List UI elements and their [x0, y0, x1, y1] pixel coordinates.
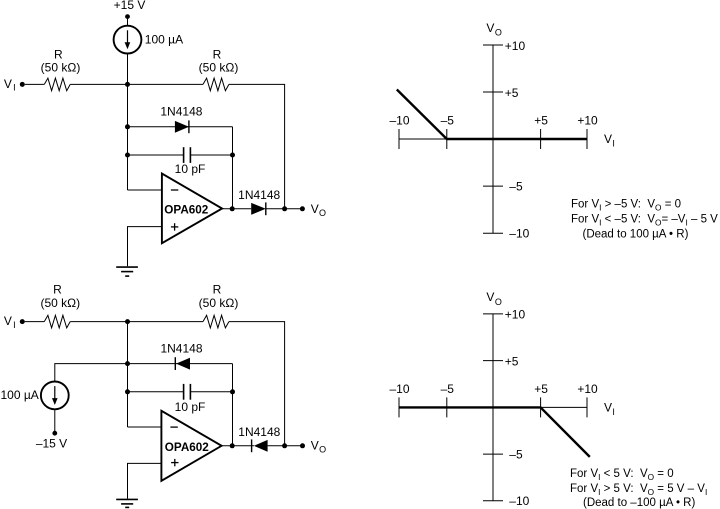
- bottom graph y tick +5: [483, 360, 503, 362]
- bottom graph x tick -5: [446, 397, 448, 417]
- node VI input terminal dot (bottom): [20, 319, 25, 324]
- wire VI terminal to R1 (bottom): [25, 321, 45, 323]
- svg-text:O: O: [495, 297, 502, 307]
- node VI input terminal dot (top): [20, 82, 25, 87]
- bottom graph y tick -5: [483, 453, 503, 455]
- svg-text:O: O: [319, 445, 326, 455]
- op-amp U2 plus sign: [171, 459, 178, 466]
- node feedback-resistor/output junction dot (top): [282, 206, 287, 211]
- wire R2 to right feedback corner (bottom): [229, 322, 285, 446]
- svg-text:V: V: [4, 314, 12, 328]
- top graph VO axis (vertical): [492, 45, 494, 233]
- label VI axis (bottom graph): [604, 401, 615, 418]
- svg-text:V: V: [604, 132, 612, 146]
- svg-text:+5: +5: [534, 382, 548, 396]
- svg-text:I: I: [612, 139, 615, 149]
- svg-text:+15 V: +15 V: [114, 0, 146, 12]
- node +15V terminal dot: [125, 14, 130, 19]
- diode D4 1N4148 output (bottom, pointing left): [252, 439, 268, 452]
- svg-text:I: I: [13, 83, 16, 93]
- bottom graph y tick -10: [483, 500, 503, 502]
- top graph x tick -5: [446, 129, 448, 149]
- svg-text:OPA602: OPA602: [165, 441, 209, 454]
- top graph y tick +5: [483, 91, 503, 93]
- resistor R1 (50 kOhm) zigzag (top): [44, 78, 70, 91]
- svg-text:O: O: [319, 208, 326, 218]
- svg-text:I: I: [13, 320, 16, 330]
- wire op-amp output to diode D4 (bottom): [222, 445, 254, 447]
- svg-text:For VI > –5 V: VO = 0: For VI > –5 V: VO = 0: [571, 198, 681, 212]
- wire R2 to right feedback corner: [229, 84, 285, 208]
- current source I1 arrow: [125, 30, 131, 49]
- capacitor C1 10 pF plates (top): [184, 147, 191, 163]
- svg-text:V: V: [604, 401, 612, 415]
- bottom graph VO axis (vertical): [492, 314, 494, 501]
- node VO terminal dot (bottom): [300, 443, 305, 448]
- svg-text:R: R: [213, 283, 222, 297]
- wire capacitor branch left segment (bottom): [128, 391, 184, 393]
- capacitor C2 10 pF plates (bottom): [184, 384, 191, 400]
- diode D1 1N4148 feedback (top, pointing right): [175, 120, 189, 133]
- wire current source up and right to node (bottom): [55, 364, 128, 382]
- diode D2 1N4148 output (top, pointing right): [251, 202, 266, 215]
- svg-text:(50 kΩ): (50 kΩ): [41, 60, 81, 74]
- svg-text:V: V: [4, 77, 12, 91]
- svg-text:10 pF: 10 pF: [175, 162, 206, 176]
- resistor R2 (50 kOhm) zigzag (bottom): [203, 315, 229, 328]
- svg-text:V: V: [311, 202, 319, 216]
- wire op-amp output to diode D2 (top): [222, 208, 251, 210]
- label VO axis (top graph): [486, 21, 502, 38]
- svg-text:+5: +5: [505, 354, 519, 368]
- svg-text:100 µA: 100 µA: [1, 388, 39, 402]
- wire current source to input node and down to inverting path: [127, 54, 129, 191]
- svg-text:(50 kΩ): (50 kΩ): [40, 296, 80, 310]
- node summing junction dot (bottom): [125, 319, 130, 324]
- svg-text:1N4148: 1N4148: [238, 425, 280, 439]
- wire diode D2 to VO terminal (top): [266, 208, 303, 210]
- wire non-inverting input to ground (bottom): [128, 463, 162, 498]
- wire inverting input (top): [128, 189, 162, 191]
- label VO axis (bottom graph): [486, 290, 502, 307]
- node op-amp output dot (top): [230, 206, 235, 211]
- bottom graph VI axis (horizontal): [399, 406, 587, 408]
- svg-text:R: R: [213, 47, 222, 61]
- wire summing node down inverting path (bottom): [127, 322, 129, 427]
- node capacitor right junction dot (top): [230, 153, 235, 158]
- svg-text:1N4148: 1N4148: [160, 342, 202, 356]
- wire R1 to R2 through summing node: [70, 83, 203, 85]
- node feedback diode junction dot (bottom): [125, 361, 130, 366]
- svg-text:For VI > 5 V: VO = 5 V – VI: For VI > 5 V: VO = 5 V – VI: [570, 483, 707, 497]
- label VI input (top): [4, 77, 16, 93]
- node op-amp output dot (bottom): [230, 443, 235, 448]
- svg-text:I: I: [612, 407, 615, 417]
- wire current source down to -15V terminal: [54, 410, 56, 434]
- wire non-inverting input to ground (top): [128, 227, 162, 267]
- node feedback-resistor/output junction dot (bottom): [282, 443, 287, 448]
- wire R1 to R2 through summing node (bottom): [70, 321, 203, 323]
- svg-text:+5: +5: [534, 114, 548, 128]
- node feedback diode junction dot (top): [125, 124, 130, 129]
- svg-text:10 pF: 10 pF: [175, 400, 206, 414]
- svg-text:–5: –5: [509, 447, 523, 461]
- svg-text:For VI < –5 V: VO= –VI – 5 V: For VI < –5 V: VO= –VI – 5 V: [571, 213, 718, 227]
- svg-text:–10: –10: [509, 226, 529, 240]
- svg-text:–5: –5: [509, 179, 523, 193]
- top graph y tick -5: [483, 185, 503, 187]
- top graph y tick +10: [483, 44, 503, 46]
- diode D3 1N4148 feedback (bottom, pointing left): [175, 357, 190, 370]
- label VO (top): [311, 202, 326, 218]
- svg-text:For VI < 5 V: VO = 0: For VI < 5 V: VO = 0: [570, 468, 674, 482]
- svg-text:–10: –10: [509, 494, 529, 508]
- svg-text:(50 kΩ): (50 kΩ): [199, 60, 239, 74]
- wire +15V terminal to current source: [127, 17, 129, 26]
- wire diode D4 to VO terminal (bottom): [268, 445, 303, 447]
- svg-text:(Dead to 100 µA • R): (Dead to 100 µA • R): [583, 228, 689, 240]
- svg-text:R: R: [54, 47, 63, 61]
- node capacitor left junction dot (top): [125, 153, 130, 158]
- svg-text:(50 kΩ): (50 kΩ): [199, 296, 239, 310]
- svg-text:–15 V: –15 V: [36, 436, 67, 450]
- wire VI terminal to R1: [25, 83, 45, 85]
- resistor R2 (50 kOhm) zigzag (top): [203, 78, 229, 91]
- wire feedback diode branch (top): [128, 126, 233, 128]
- svg-text:+5: +5: [505, 86, 519, 100]
- label VI axis (top graph): [604, 132, 615, 149]
- label VO (bottom): [311, 438, 326, 454]
- svg-text:R: R: [53, 283, 62, 297]
- svg-text:1N4148: 1N4148: [160, 105, 202, 119]
- svg-text:100 µA: 100 µA: [145, 32, 183, 46]
- svg-text:O: O: [495, 28, 502, 38]
- svg-text:OPA602: OPA602: [164, 203, 208, 216]
- wire capacitor branch right segment (top): [190, 154, 232, 156]
- svg-text:V: V: [311, 438, 319, 452]
- svg-text:+10: +10: [505, 39, 526, 53]
- op-amp U1 minus sign: [171, 189, 178, 191]
- node VO terminal dot (top): [300, 206, 305, 211]
- current source I2 circle (bottom): [41, 382, 69, 410]
- op-amp U2 minus sign: [170, 426, 177, 428]
- wire feedback diode branch (bottom): [128, 363, 233, 365]
- svg-text:–10: –10: [389, 114, 409, 128]
- top graph VI axis (horizontal): [399, 138, 587, 140]
- wire inverting input (bottom): [128, 426, 162, 428]
- wire feedback right vertical to output node (bottom): [232, 364, 234, 446]
- svg-text:–5: –5: [441, 382, 455, 396]
- node capacitor left junction dot (bottom): [125, 389, 130, 394]
- wire capacitor branch right segment (bottom): [190, 391, 232, 393]
- node summing junction dot (top): [125, 82, 130, 87]
- top graph x tick -10: [398, 129, 400, 149]
- node -15V terminal dot: [52, 431, 57, 436]
- op-amp U1 plus sign: [171, 223, 178, 230]
- bottom graph x tick -10: [398, 397, 400, 417]
- bottom graph x tick +5: [540, 397, 542, 417]
- svg-text:(Dead to –100 µA • R): (Dead to –100 µA • R): [583, 497, 695, 509]
- svg-text:V: V: [486, 21, 494, 35]
- svg-text:+10: +10: [577, 382, 598, 396]
- node capacitor right junction dot (bottom): [230, 389, 235, 394]
- svg-text:+10: +10: [577, 114, 598, 128]
- current source I2 arrow: [52, 386, 58, 405]
- op-amp U2 OPA602 triangle (bottom): [161, 411, 221, 481]
- ground symbol (bottom circuit): [116, 499, 138, 507]
- svg-text:V: V: [486, 290, 494, 304]
- top graph y tick -10: [483, 232, 503, 234]
- svg-text:+10: +10: [505, 308, 526, 322]
- wire capacitor branch left segment (top): [128, 154, 184, 156]
- bottom graph x tick +10: [586, 397, 588, 417]
- top graph x tick +5: [540, 129, 542, 149]
- svg-text:1N4148: 1N4148: [238, 188, 280, 202]
- svg-text:–5: –5: [441, 114, 455, 128]
- wire feedback right vertical to output node (top): [232, 127, 234, 209]
- bottom graph transfer curve: [399, 407, 590, 457]
- ground symbol (top circuit): [116, 267, 138, 276]
- label VI input (bottom): [4, 314, 16, 330]
- op-amp U1 OPA602 triangle (top): [162, 174, 222, 244]
- bottom graph y tick +10: [483, 313, 503, 315]
- svg-text:–10: –10: [389, 382, 409, 396]
- resistor R1 (50 kOhm) zigzag (bottom): [44, 315, 70, 328]
- current source I1 circle: [114, 26, 142, 54]
- top graph transfer curve: [397, 90, 587, 140]
- top graph x tick +10: [586, 129, 588, 149]
